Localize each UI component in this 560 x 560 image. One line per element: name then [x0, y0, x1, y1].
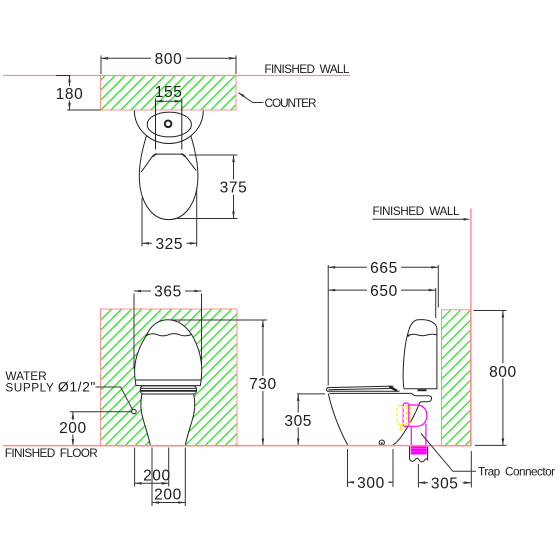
cistern lid ellipse (top view) [147, 112, 191, 137]
water supply stub [132, 409, 137, 414]
cistern bottom shade [418, 389, 427, 391]
cistern (front view) [135, 320, 202, 386]
finished wall leader (side) [373, 218, 471, 221]
dimension 375 (bowl length) [174, 155, 251, 219]
cistern top dot (side) [407, 334, 409, 336]
svg-text:Trap Connector: Trap Connector [478, 465, 555, 479]
dimension 365 (tank width) [134, 284, 202, 301]
svg-text:FINISHED FLOOR: FINISHED FLOOR [5, 446, 98, 460]
dimension 155 (tank neck) [155, 84, 183, 103]
dimension 800 (wall height) [474, 311, 521, 446]
trap connector flange (magenta) [403, 403, 409, 426]
dimension 665 [328, 260, 438, 386]
trap connector elbow (magenta) [409, 405, 427, 426]
wall hatch (side view) [442, 310, 471, 446]
svg-text:650: 650 [370, 283, 398, 300]
bowl rear ledge and foot profile (side) [393, 393, 432, 445]
dimension 650 [328, 282, 436, 318]
svg-text:305: 305 [431, 475, 459, 492]
svg-text:730: 730 [249, 376, 277, 393]
seat lid back edge (top view) [141, 154, 196, 172]
wall hatch (front view) [101, 309, 238, 446]
svg-text:305: 305 [284, 413, 312, 430]
svg-text:200: 200 [154, 487, 182, 504]
cistern bottom shadow line (front) [136, 379, 201, 381]
svg-text:800: 800 [155, 51, 183, 68]
cistern (side view) [403, 320, 437, 389]
lid hinge wedge [390, 387, 398, 391]
alternate flange position (yellow dashed) [397, 405, 410, 424]
dimension 305 (trap offset) [418, 475, 471, 492]
dimension 800 (counter width) [101, 51, 236, 75]
counter bottom edge redraw [101, 109, 237, 111]
drain pipe break (below floor) [410, 447, 428, 462]
tank neck lines / 155 extension lines [155, 99, 157, 150]
below-floor extension lines (front view) [135, 448, 186, 507]
730 top extension line [172, 319, 267, 321]
svg-text:365: 365 [154, 284, 182, 301]
bowl (front view) [141, 394, 195, 446]
flush button [165, 121, 172, 128]
svg-text:325: 325 [155, 236, 183, 253]
svg-text:180: 180 [56, 86, 84, 103]
svg-text:SUPPLY Ø1/2": SUPPLY Ø1/2" [5, 378, 95, 394]
svg-text:300: 300 [357, 475, 385, 492]
trap pipe solid band (magenta) [411, 446, 427, 455]
finished floor line (red) [3, 445, 471, 447]
seat lower line (side) [329, 392, 412, 394]
svg-text:155: 155 [155, 84, 183, 101]
below-floor extension lines (side view) [348, 449, 472, 488]
dimension 300 (base depth) [348, 475, 394, 492]
cistern wavy line (front) [146, 334, 191, 336]
dimension 200 (supply height) [56, 412, 132, 446]
yellow shift arrow [400, 424, 402, 430]
365 extension lines [133, 294, 135, 370]
cistern wavy line (side) [408, 334, 437, 336]
seat (front view) [140, 386, 196, 394]
svg-text:COUNTER: COUNTER [265, 96, 317, 110]
dimension 200 (supply offset) [135, 468, 171, 485]
svg-text:200: 200 [143, 468, 171, 485]
water supply leader [96, 387, 133, 410]
trap pipe lines (magenta) [410, 426, 412, 446]
dimension 325 (bowl width) [142, 188, 197, 253]
svg-text:FINISHED WALL: FINISHED WALL [264, 62, 349, 76]
COUNTER leader [238, 92, 263, 102]
counter hatch [101, 76, 237, 111]
svg-text:665: 665 [370, 260, 398, 277]
dimension 200 (base width) [152, 487, 185, 504]
bolt cap [379, 440, 384, 445]
seat lid (side view) [327, 386, 400, 391]
dimension 305 (seat height) [281, 394, 325, 446]
cistern half-disk (top view) [134, 110, 203, 143]
bowl egg outline (top view) [139, 135, 198, 220]
finished wall line (vertical red) [470, 209, 472, 447]
dimension 180 (counter depth) [53, 76, 101, 111]
trap connector leader [421, 434, 476, 472]
finished wall line (top) [3, 75, 350, 77]
svg-text:375: 375 [220, 180, 248, 197]
dimension 730 (height) [246, 320, 280, 446]
svg-text:FINISHED WALL: FINISHED WALL [373, 204, 460, 218]
bowl front profile (side) [328, 394, 348, 446]
svg-text:200: 200 [59, 420, 87, 437]
svg-text:800: 800 [489, 364, 517, 381]
